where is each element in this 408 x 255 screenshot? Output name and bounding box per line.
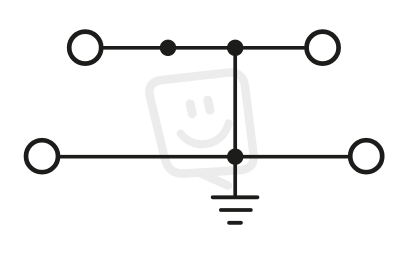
watermark smile [181, 123, 232, 148]
wire: vertical link to ground [233, 48, 237, 197]
watermark body (rounded square outline, slight perspective) [149, 73, 253, 174]
watermark right eye [208, 100, 210, 110]
node: bottom bus / ground-link junction [227, 149, 243, 165]
watermark latch foot [201, 174, 228, 186]
terminal contact top-left [69, 32, 101, 64]
terminal contact bottom-left [26, 140, 58, 172]
watermark left eye [190, 104, 192, 114]
ground bar 3 (bottom, shortest) [229, 221, 241, 225]
wire: bottom horizontal bus [60, 155, 349, 159]
node: top bus / ground-link junction [227, 40, 243, 56]
wire: top horizontal bus [103, 46, 305, 50]
terminal contact bottom-right [350, 140, 382, 172]
ground bar 2 (middle) [221, 208, 251, 212]
ground bar 1 (top, widest) [213, 195, 258, 199]
terminal contact top-right [307, 32, 339, 64]
watermark logo (manufacturer plug smiley) [149, 73, 253, 186]
node: top bus connection point [160, 40, 176, 56]
